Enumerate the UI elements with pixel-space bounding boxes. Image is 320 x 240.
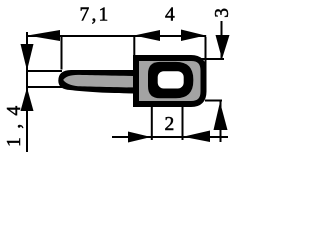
svg-text:7,1: 7,1 [80,5,111,26]
svg-text:,: , [4,122,25,129]
svg-text:1: 1 [4,135,25,147]
svg-text:4: 4 [4,104,25,116]
svg-text:3: 3 [212,6,233,18]
svg-text:4: 4 [165,5,177,26]
svg-text:2: 2 [165,114,177,135]
